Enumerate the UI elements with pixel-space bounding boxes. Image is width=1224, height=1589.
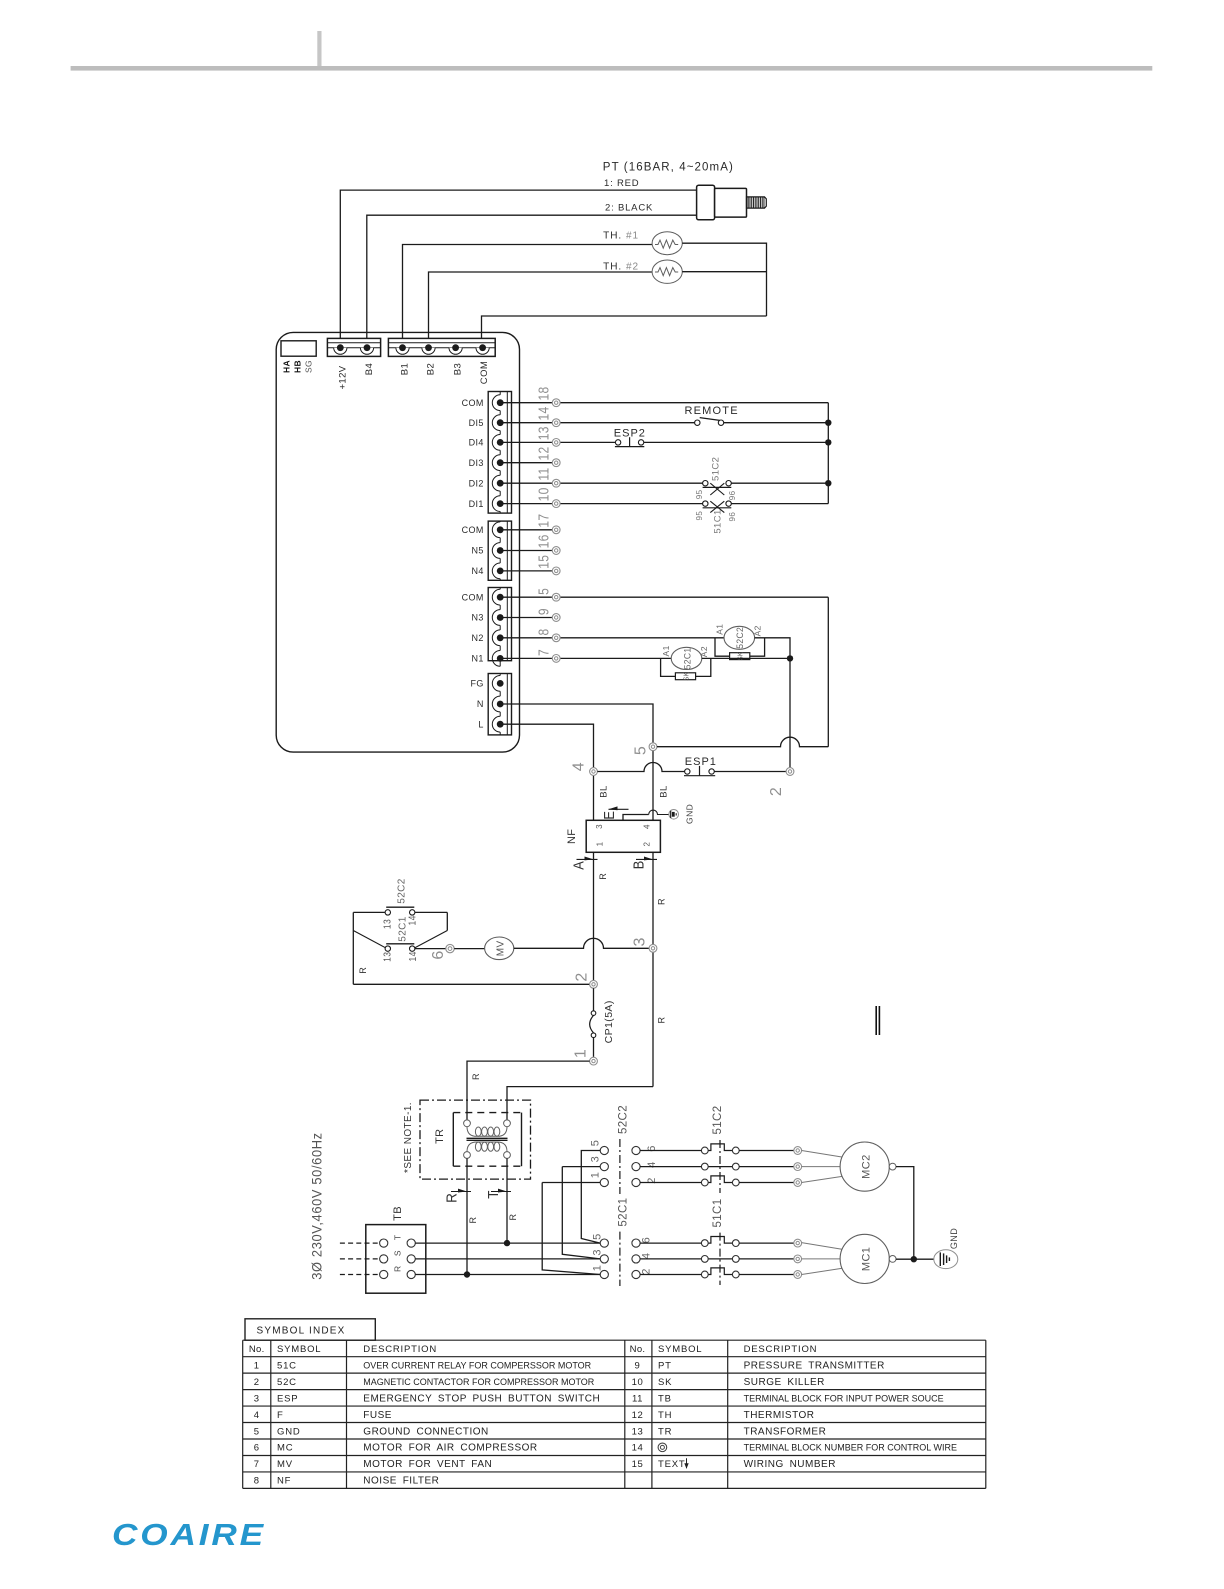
wire MV to ring 3 with hop <box>514 938 649 948</box>
svg-text:N5: N5 <box>471 546 483 556</box>
svg-text:2: 2 <box>768 787 785 796</box>
wire REMOTE to bus <box>724 422 829 424</box>
wiring ring 2 (CP1 input) <box>590 980 598 988</box>
svg-text:MOTOR FOR VENT FAN: MOTOR FOR VENT FAN <box>363 1459 492 1470</box>
svg-text:13: 13 <box>382 919 393 929</box>
wire contactor to overload <box>640 1274 701 1276</box>
push button ESP1 <box>684 766 715 776</box>
svg-text:No.: No. <box>249 1344 265 1355</box>
svg-text:N1: N1 <box>471 654 483 664</box>
wiring ring 4 <box>590 768 598 776</box>
wire 51C2 to bus <box>731 482 828 484</box>
wire terminal stub <box>500 637 552 639</box>
svg-text:13: 13 <box>382 952 393 962</box>
svg-text:SG: SG <box>303 360 313 373</box>
svg-text:A1: A1 <box>714 624 724 635</box>
table row 1 51C <box>254 1360 592 1371</box>
wiring ring 5 <box>649 743 657 751</box>
wire DI2 to 51C2 contact <box>560 482 703 484</box>
table row 14 <box>632 1443 957 1454</box>
svg-text:51C2: 51C2 <box>710 457 721 481</box>
wire terminal stub <box>500 402 552 404</box>
svg-text:8: 8 <box>535 628 552 635</box>
terminal dot <box>497 721 504 728</box>
svg-text:TH. #1: TH. #1 <box>603 230 639 241</box>
svg-text:MOTOR FOR AIR COMPRESSOR: MOTOR FOR AIR COMPRESSOR <box>363 1443 537 1454</box>
table row 13 <box>632 1426 827 1437</box>
wire terminal stub <box>500 657 552 659</box>
svg-text:T: T <box>485 1190 502 1199</box>
wire N1 to 52C1 coil <box>560 657 671 659</box>
wire ring6 to MV <box>454 948 484 950</box>
svg-text:PT: PT <box>658 1360 672 1371</box>
svg-text:DI4: DI4 <box>469 438 484 448</box>
svg-text:10: 10 <box>535 487 552 501</box>
svg-text:TR: TR <box>658 1426 672 1437</box>
terminal block TB <box>366 1225 426 1294</box>
svg-text:SYMBOL: SYMBOL <box>658 1344 702 1355</box>
right bus (coil common) <box>827 597 829 747</box>
svg-text:18: 18 <box>535 387 552 401</box>
svg-text:12: 12 <box>632 1410 644 1421</box>
terminal block N5 N4 <box>488 521 511 580</box>
svg-text:SK: SK <box>658 1377 672 1388</box>
terminal dot <box>497 419 504 426</box>
table row 11 <box>632 1393 944 1404</box>
wire ring1 to transformer primary <box>467 1061 590 1120</box>
svg-text:52C1: 52C1 <box>397 916 408 942</box>
svg-text:52C2: 52C2 <box>396 878 407 904</box>
wire terminal stub <box>500 462 552 464</box>
terminal dot <box>497 634 504 641</box>
svg-text:N2: N2 <box>471 633 483 643</box>
wiring ring 10 <box>552 500 560 508</box>
svg-text:52C2: 52C2 <box>735 627 745 649</box>
svg-text:MC1: MC1 <box>861 1247 873 1271</box>
table row 12 <box>632 1410 815 1421</box>
svg-text:MV: MV <box>496 940 507 956</box>
svg-text:TRANSFORMER: TRANSFORMER <box>744 1426 827 1437</box>
svg-text:5: 5 <box>589 1140 601 1147</box>
terminal dot <box>497 547 504 554</box>
wire TR secondary T phase <box>506 1158 508 1243</box>
svg-text:51C1: 51C1 <box>712 1198 724 1227</box>
contactor coil 52C2 <box>724 626 755 649</box>
wire phase T <box>415 1242 600 1244</box>
wiring ring 12 <box>552 459 560 467</box>
contactor coil 52C1 <box>671 647 702 669</box>
junction DI4-bus <box>825 439 831 445</box>
svg-text:B1: B1 <box>399 363 410 375</box>
table row 15 <box>632 1458 836 1470</box>
svg-text:5: 5 <box>535 588 552 595</box>
wire NF case to ground <box>623 815 649 821</box>
svg-text:A: A <box>570 861 587 870</box>
wire overload to motor ring <box>739 1166 794 1168</box>
table row 9 <box>635 1360 885 1371</box>
svg-text:4: 4 <box>254 1410 260 1421</box>
svg-text:2: 2 <box>254 1377 260 1388</box>
svg-text:SURGE KILLER: SURGE KILLER <box>744 1377 825 1388</box>
wire N terminal down to node 5 <box>500 704 653 743</box>
svg-text:52C1: 52C1 <box>618 1198 630 1227</box>
svg-text:+12V: +12V <box>337 365 348 389</box>
svg-text:51C1: 51C1 <box>713 509 724 533</box>
table row 3 ESP <box>254 1393 600 1404</box>
svg-text:R: R <box>657 898 667 905</box>
wire 52C2 pin5 feed <box>581 1151 600 1244</box>
svg-text:N: N <box>477 699 484 709</box>
table row 4 F <box>254 1410 392 1421</box>
svg-text:1: 1 <box>596 841 605 846</box>
svg-text:14: 14 <box>535 406 552 420</box>
terminal dot <box>497 655 504 662</box>
wire NF pin1 down <box>593 852 595 980</box>
thermistor TH #1 <box>652 232 682 255</box>
wire terminal stub <box>500 570 552 572</box>
svg-text:COM: COM <box>479 361 490 384</box>
wiring ring 11 <box>552 479 560 487</box>
wiring ring 9 <box>552 614 560 622</box>
svg-text:PT (16BAR, 4~20mA): PT (16BAR, 4~20mA) <box>603 162 734 174</box>
svg-text:14: 14 <box>632 1443 644 1454</box>
hop over pin4 wire <box>649 810 669 814</box>
svg-text:COM: COM <box>462 525 484 535</box>
wire TH#1 to COM bus <box>682 243 766 316</box>
terminal block DI (COM DI5-DI1) <box>488 392 511 514</box>
wiring ring 6 <box>446 944 454 952</box>
svg-text:8: 8 <box>254 1476 260 1487</box>
wire node4 to ESP1 with hop <box>597 763 684 772</box>
svg-text:9: 9 <box>535 608 552 615</box>
wire aux common to ring 2 <box>353 983 589 985</box>
svg-text:52C2: 52C2 <box>618 1105 630 1134</box>
svg-text:14: 14 <box>407 951 418 961</box>
svg-text:9: 9 <box>635 1360 641 1371</box>
svg-text:NF: NF <box>277 1476 291 1487</box>
wiring ring 8 <box>552 634 560 642</box>
svg-text:MAGNETIC CONTACTOR FOR COMPRES: MAGNETIC CONTACTOR FOR COMPRESSOR MOTOR <box>363 1377 595 1387</box>
wire B2 to TH#2 <box>429 272 653 345</box>
motor terminal ring (MC2) <box>794 1163 802 1171</box>
svg-text:10: 10 <box>632 1377 644 1388</box>
controller main unit outline <box>276 332 519 752</box>
svg-text:F: F <box>277 1410 284 1421</box>
svg-text:R: R <box>598 873 608 880</box>
svg-text:MV: MV <box>277 1459 293 1470</box>
wire aux left leg <box>353 912 385 984</box>
svg-text:2: 2 <box>640 1268 652 1275</box>
wire NF pin2 down <box>652 852 654 1086</box>
terminal block N3 N2 N1 <box>488 588 511 667</box>
svg-text:1: RED: 1: RED <box>604 178 639 189</box>
wire terminal stub <box>500 503 552 505</box>
wire node5 to right bus with hop <box>657 737 828 747</box>
svg-text:7: 7 <box>535 649 552 656</box>
svg-text:N3: N3 <box>471 613 483 623</box>
svg-text:5: 5 <box>632 746 649 755</box>
svg-text:2: BLACK: 2: BLACK <box>605 202 653 213</box>
thermistor TH #2 <box>652 260 682 283</box>
wire terminal stub <box>500 482 552 484</box>
svg-text:R: R <box>444 1193 461 1203</box>
svg-text:ESP1: ESP1 <box>685 756 717 768</box>
terminal dot <box>497 526 504 533</box>
svg-text:11: 11 <box>632 1393 643 1404</box>
motor terminal ring (MC2) <box>794 1147 802 1155</box>
wire DI1 to 51C1 contact <box>560 503 703 505</box>
circuit protector CP1(5A) <box>590 988 596 1057</box>
wire ESP1 to ring 2 <box>714 771 786 773</box>
svg-text:4: 4 <box>642 824 651 829</box>
over current relay 51C1 contacts <box>701 1233 739 1285</box>
terminal dot <box>497 500 504 507</box>
svg-text:B3: B3 <box>452 363 463 375</box>
compressor motor MC2 <box>802 1142 896 1191</box>
terminal dot <box>497 399 504 406</box>
svg-text:B: B <box>629 860 646 869</box>
svg-text:NOISE FILTER: NOISE FILTER <box>363 1476 439 1487</box>
wire contactor to overload <box>640 1258 701 1260</box>
junction R-TR <box>464 1271 470 1277</box>
wiring ring 15 <box>552 567 560 575</box>
wiring ring 18 <box>552 399 560 407</box>
svg-text:1: 1 <box>254 1360 260 1371</box>
wire overload to motor ring <box>739 1258 794 1260</box>
svg-text:R: R <box>508 1213 518 1220</box>
svg-text:13: 13 <box>632 1426 644 1437</box>
svg-text:3: 3 <box>595 824 604 829</box>
ground symbol GND (motors) <box>934 1250 958 1269</box>
junction 52C coils common <box>787 655 793 661</box>
svg-text:A2: A2 <box>752 625 762 636</box>
svg-text:3: 3 <box>589 1156 601 1163</box>
svg-text:R: R <box>468 1216 478 1223</box>
table row 2 52C <box>254 1377 595 1388</box>
svg-text:THERMISTOR: THERMISTOR <box>744 1410 815 1421</box>
arrow T (TR secondary) <box>485 1189 511 1199</box>
svg-text:TERMINAL BLOCK FOR INPUT POWER: TERMINAL BLOCK FOR INPUT POWER SOUCE <box>744 1393 944 1403</box>
svg-text:TB: TB <box>392 1206 404 1221</box>
header rule <box>71 31 1153 71</box>
wire B4 to PT pin2 BLACK <box>367 215 697 345</box>
svg-text:T: T <box>393 1235 403 1241</box>
wire terminal stub <box>500 529 552 531</box>
svg-text:15: 15 <box>535 555 552 569</box>
svg-text:COAIRE: COAIRE <box>112 1517 266 1552</box>
wire thermistor return to COM terminal <box>482 316 767 345</box>
wire contactor to overload <box>640 1150 701 1152</box>
overload contact 51C2 (95-96) <box>703 481 732 496</box>
terminal dot <box>497 594 504 601</box>
table row 8 NF <box>254 1476 440 1487</box>
svg-text:No.: No. <box>630 1344 646 1355</box>
svg-text:OVER CURRENT RELAY FOR COMPERS: OVER CURRENT RELAY FOR COMPERSSOR MOTOR <box>363 1360 591 1370</box>
wire +12V to PT pin1 RED <box>340 190 696 345</box>
wire terminal stub <box>500 617 552 619</box>
arrow B <box>629 857 657 870</box>
connector HA HB SG <box>281 341 316 356</box>
svg-text:52C: 52C <box>277 1377 297 1388</box>
svg-text:6: 6 <box>254 1443 260 1454</box>
table row 7 MV <box>254 1459 492 1470</box>
svg-text:4: 4 <box>640 1253 652 1260</box>
svg-text:WIRING NUMBER: WIRING NUMBER <box>744 1459 836 1470</box>
surge killer SK (52C1) <box>661 658 711 680</box>
svg-text:DI3: DI3 <box>469 458 484 468</box>
svg-text:FUSE: FUSE <box>363 1410 392 1421</box>
wire terminal stub <box>500 422 552 424</box>
svg-text:1: 1 <box>591 1265 603 1272</box>
svg-text:1: 1 <box>572 1049 589 1058</box>
arrow E <box>600 806 628 819</box>
terminal dot <box>497 614 504 621</box>
svg-text:EMERGENCY STOP PUSH BUTTON SWI: EMERGENCY STOP PUSH BUTTON SWITCH <box>363 1393 600 1404</box>
svg-text:1: 1 <box>589 1172 601 1179</box>
svg-text:CP1(5A): CP1(5A) <box>603 1000 615 1043</box>
arrow R (TR secondary) <box>444 1189 471 1203</box>
svg-text:6: 6 <box>640 1237 652 1244</box>
wiring ring 16 <box>552 547 560 555</box>
wire ESP2 to bus <box>644 441 829 443</box>
wire pin2 branch to transformer <box>507 1087 653 1120</box>
wire N2 to 52C2 coil <box>560 637 724 639</box>
svg-text:BL: BL <box>599 785 610 797</box>
svg-text:N4: N4 <box>471 566 483 576</box>
wire overload to motor ring <box>739 1182 794 1184</box>
svg-text:GND: GND <box>277 1426 301 1437</box>
svg-text:3: 3 <box>591 1249 603 1256</box>
wiring mark <box>876 1006 879 1035</box>
terminal block FG N L <box>488 674 511 735</box>
terminal dot <box>497 439 504 446</box>
svg-text:5: 5 <box>591 1233 603 1240</box>
ground symbol GND (NF) <box>669 810 679 820</box>
wire phase S <box>415 1258 600 1260</box>
svg-text:3: 3 <box>631 937 648 946</box>
wire COM row to right bus <box>560 402 828 404</box>
svg-text:DESCRIPTION: DESCRIPTION <box>744 1344 818 1355</box>
junction T-TR <box>504 1240 510 1246</box>
terminal strip B1 B2 B3 COM <box>388 338 495 356</box>
wire node5 to NF pin4 <box>652 751 654 821</box>
svg-text:GND: GND <box>684 804 694 824</box>
svg-text:GROUND CONNECTION: GROUND CONNECTION <box>363 1426 488 1437</box>
svg-text:17: 17 <box>535 514 552 528</box>
wire aux to ring 6 <box>415 948 446 950</box>
wire overload to motor ring <box>739 1274 794 1276</box>
svg-text:96: 96 <box>728 512 737 522</box>
wire contactor to overload <box>640 1242 701 1244</box>
terminal dot <box>497 701 504 708</box>
svg-text:51C2: 51C2 <box>712 1105 724 1134</box>
svg-text:*SEE NOTE-1.: *SEE NOTE-1. <box>403 1102 414 1173</box>
wire MC1 to ground <box>896 1258 934 1260</box>
switch REMOTE <box>695 418 724 426</box>
svg-text:R: R <box>471 1073 481 1080</box>
junction DI5-bus <box>825 420 831 426</box>
svg-text:TH: TH <box>658 1410 672 1421</box>
terminal dot <box>497 568 504 575</box>
motor terminal ring (MC1) <box>794 1271 802 1279</box>
overload contact 51C1 (95-96) <box>703 501 732 513</box>
wiring ring 17 <box>552 526 560 534</box>
svg-text:SYMBOL INDEX: SYMBOL INDEX <box>257 1326 346 1337</box>
svg-text:13: 13 <box>535 426 552 440</box>
svg-text:2: 2 <box>573 972 590 981</box>
svg-text:MC2: MC2 <box>861 1154 873 1178</box>
svg-text:ESP: ESP <box>277 1393 298 1404</box>
svg-text:B2: B2 <box>425 363 436 375</box>
wire contactor to overload <box>640 1182 701 1184</box>
wire overload to motor ring <box>739 1150 794 1152</box>
wire TR secondary R phase <box>466 1158 468 1274</box>
transformer TR <box>453 1113 521 1167</box>
wiring ring 13 <box>552 439 560 447</box>
svg-text:5: 5 <box>254 1426 260 1437</box>
svg-text:L: L <box>478 719 483 729</box>
svg-text:B4: B4 <box>364 363 375 375</box>
wire aux right leg <box>415 912 448 948</box>
svg-text:12: 12 <box>535 447 552 461</box>
svg-text:HB: HB <box>292 360 302 373</box>
svg-text:DI1: DI1 <box>469 499 484 509</box>
svg-text:3: 3 <box>254 1393 260 1404</box>
table row 5 GND <box>254 1426 489 1437</box>
wire contactor to overload <box>640 1166 701 1168</box>
svg-text:16: 16 <box>535 534 552 548</box>
svg-text:S: S <box>393 1250 403 1256</box>
svg-text:TEXT: TEXT <box>658 1459 685 1470</box>
motor terminal ring (MC1) <box>794 1255 802 1263</box>
supply stub T <box>340 1242 380 1244</box>
wire overload to motor ring <box>739 1242 794 1244</box>
svg-text:TERMINAL BLOCK NUMBER FOR CONT: TERMINAL BLOCK NUMBER FOR CONTROL WIRE <box>744 1443 957 1453</box>
wiring ring 3 <box>649 944 657 952</box>
over current relay 51C2 contacts <box>701 1140 739 1193</box>
svg-text:FG: FG <box>470 679 483 689</box>
svg-text:14: 14 <box>407 915 418 925</box>
motor terminal ring (MC1) <box>794 1239 802 1247</box>
svg-text:3Ø 230V,460V 50/60Hz: 3Ø 230V,460V 50/60Hz <box>309 1132 324 1279</box>
svg-text:NF: NF <box>566 829 578 844</box>
see note box <box>420 1100 531 1179</box>
push button ESP2 <box>615 437 644 446</box>
svg-text:51C: 51C <box>277 1360 297 1371</box>
table row 10 <box>632 1377 825 1388</box>
wiring ring 2 <box>786 768 794 776</box>
svg-text:A1: A1 <box>661 645 671 656</box>
wire terminal stub <box>500 596 552 598</box>
wire 52C2 A2 to ESP1 node <box>755 638 790 768</box>
svg-text:PRESSURE TRANSMITTER: PRESSURE TRANSMITTER <box>744 1360 885 1371</box>
vent fan motor MV <box>485 937 514 960</box>
svg-text:15: 15 <box>632 1459 644 1470</box>
wire MC2 to ground bus <box>896 1167 914 1260</box>
terminal dot <box>497 680 504 687</box>
wire COM(N) row to bus <box>560 596 828 598</box>
wire node4 to NF pin3 <box>593 775 595 820</box>
svg-text:96: 96 <box>728 490 737 500</box>
junction ground bus <box>911 1256 917 1262</box>
svg-text:REMOTE: REMOTE <box>685 405 739 417</box>
surge killer SK (52C2) <box>715 638 765 661</box>
wiring ring 14 <box>552 419 560 427</box>
svg-text:SK: SK <box>683 672 691 681</box>
wire 52C2 pin3 feed <box>562 1167 600 1259</box>
svg-text:4: 4 <box>570 762 587 771</box>
right bus (DI common) <box>827 403 829 504</box>
